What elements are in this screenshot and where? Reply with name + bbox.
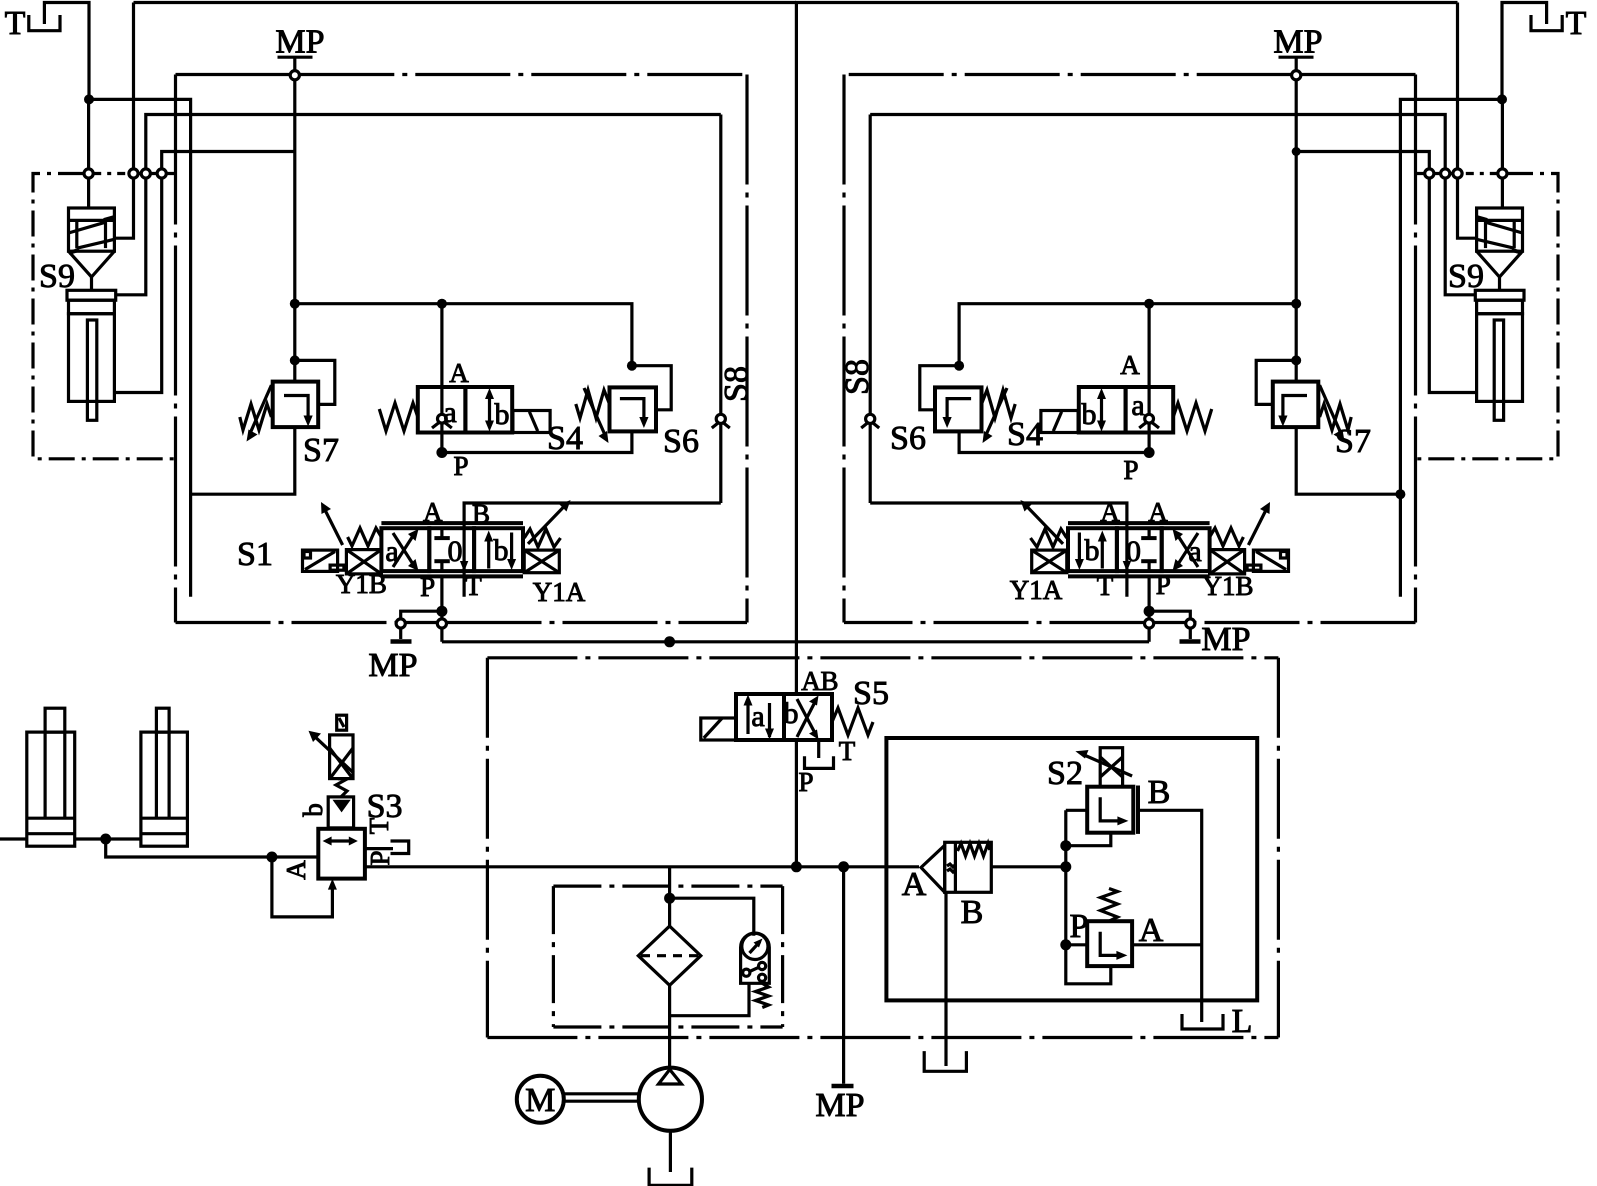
svg-text:MP: MP [1273, 24, 1322, 61]
pressure switch [741, 933, 770, 983]
wire: valve A ports [1066, 943, 1087, 946]
svg-text:S7: S7 [1335, 423, 1371, 460]
svg-text:T: T [839, 736, 856, 766]
valve S3 body [318, 829, 365, 879]
S1 left solenoid [346, 550, 381, 574]
svg-text:T: T [1097, 571, 1114, 601]
S3 manual override cap [337, 715, 347, 730]
svg-text:S8: S8 [839, 359, 876, 395]
wire: top bus line (left section) [134, 1, 797, 4]
svg-text:S4: S4 [547, 420, 583, 457]
svg-text:A: A [423, 497, 443, 527]
node: junction T-line [84, 94, 94, 104]
svg-text:0: 0 [1126, 535, 1141, 568]
valve S9 funnel (poppet) [69, 251, 115, 277]
wire: S7 bypass loop [295, 360, 335, 404]
S5 spring [832, 708, 873, 735]
svg-text:P: P [798, 767, 813, 797]
wire: riser from top bus to junction row [132, 3, 135, 170]
svg-text:B: B [961, 894, 984, 931]
valve S9 pilot body [69, 208, 115, 251]
S1 centre box tank symbols [440, 528, 443, 536]
svg-text:S6: S6 [663, 423, 699, 460]
svg-text:T: T [5, 5, 26, 42]
S5 tank port T [817, 740, 820, 758]
gauge port MP (bottom centre) [842, 867, 845, 1084]
S1 right spring [524, 529, 560, 547]
svg-text:B: B [472, 499, 490, 529]
node: right S7 drain junction [1395, 489, 1405, 499]
wire: S3 outlet [365, 865, 919, 868]
svg-text:Y1B: Y1B [336, 569, 387, 599]
svg-text:Y1A: Y1A [1010, 575, 1063, 605]
tank T (top left) [29, 15, 60, 31]
svg-text:P: P [1123, 455, 1138, 485]
filter [638, 926, 701, 985]
filter sub-block (chain) [553, 884, 782, 887]
wire: S7 drain to T line [191, 427, 295, 494]
wire: S4 to P node [440, 423, 443, 452]
svg-text:MP: MP [368, 647, 417, 684]
svg-text:MP: MP [275, 24, 324, 61]
relief valve S6 [610, 387, 657, 431]
svg-text:S2: S2 [1047, 755, 1083, 792]
wire: S8 to S1 B port [464, 503, 721, 597]
svg-text:b: b [1082, 398, 1097, 431]
right half (mirrored copy of left half geometry) [795, 3, 1562, 642]
svg-text:a: a [1188, 535, 1201, 568]
wire: S7 riser [293, 304, 296, 382]
svg-text:b: b [1085, 534, 1100, 567]
svg-text:A: A [902, 866, 927, 903]
svg-text:A: A [801, 666, 821, 696]
wire: S5 P port to supply line [795, 740, 798, 867]
S3 drain with tank [365, 847, 393, 850]
wire: inner block top edge [146, 115, 721, 170]
svg-text:S9: S9 [1448, 258, 1484, 295]
S5 solenoid [701, 718, 736, 740]
svg-text:P: P [1156, 570, 1171, 600]
wire: pressure bus [295, 304, 632, 366]
check valve A-B [921, 845, 945, 892]
svg-text:P: P [420, 572, 435, 602]
cylinder (bottom left outer) [45, 708, 65, 732]
svg-text:b: b [495, 398, 510, 431]
wire: check valve outlet [991, 865, 1066, 868]
svg-text:A: A [449, 358, 469, 388]
wire: MP riser down to pressure bus [293, 80, 296, 304]
wire: T return to inner block left edge [89, 99, 191, 596]
motor M [517, 1076, 564, 1123]
svg-text:A: A [281, 860, 311, 880]
svg-text:b: b [784, 697, 799, 730]
wire: cylinders to valve S3 [106, 839, 319, 857]
S1 left adjust arrow [325, 510, 343, 545]
drain tank L [1182, 1014, 1223, 1029]
svg-text:L: L [1232, 1003, 1253, 1040]
S1 box a crossed arrows [393, 534, 415, 568]
block boundary: outer valve block (chain) [174, 75, 177, 623]
LEFTHALF [29, 3, 796, 642]
S9 enclosure (chain line box) [33, 174, 176, 459]
node P [436, 447, 447, 458]
wire: pump pressure line P [442, 640, 1149, 643]
S1 right adjust arrow [528, 505, 566, 544]
svg-text:S4: S4 [1007, 416, 1043, 453]
svg-text:Y1B: Y1B [1202, 571, 1253, 601]
S1 box b arrows [487, 536, 490, 569]
directional valve S1 [381, 521, 523, 525]
svg-text:a: a [1131, 389, 1144, 422]
svg-text:a: a [443, 396, 456, 429]
S2 outlet B [1136, 786, 1140, 834]
block boundary: power unit block (chain) [487, 656, 1278, 659]
wire: C2 drop to S9 cylinder top [116, 178, 146, 295]
svg-text:S5: S5 [853, 675, 889, 712]
wire: S2 gallery riser [1064, 810, 1067, 945]
svg-text:A: A [1120, 350, 1140, 380]
wire: C3 drop to S9 cylinder bottom [114, 178, 161, 393]
relief valve A [1087, 921, 1132, 966]
svg-text:S8: S8 [718, 366, 755, 402]
svg-text:P: P [365, 850, 395, 865]
wire: cylinder feed line [0, 837, 27, 840]
wire: S1 P drop to MP node [440, 576, 443, 619]
svg-text:A: A [1148, 497, 1168, 527]
svg-text:B: B [820, 666, 838, 696]
svg-text:A: A [1100, 497, 1120, 527]
S2 manifold block [886, 738, 1257, 1000]
directional valve S4 [418, 387, 466, 433]
check valve S8 [719, 115, 722, 414]
shaft motor-pump [564, 1092, 639, 1095]
wire: suction line into filter [668, 867, 671, 926]
valve A spring [1101, 889, 1118, 922]
svg-text:P: P [1070, 908, 1089, 945]
check symbol in S4 box a [438, 414, 447, 423]
svg-text:S9: S9 [39, 258, 75, 295]
svg-text:b: b [494, 534, 509, 567]
S1 left pilot [303, 550, 338, 571]
S3 pilot section with poppet [328, 797, 353, 828]
svg-text:MP: MP [815, 1087, 864, 1124]
arrows in S4 box b [488, 394, 491, 426]
wire: S1 P to pump supply line [440, 628, 443, 642]
S2 pilot head [1100, 748, 1122, 787]
cylinder (bottom left inner) [156, 708, 169, 732]
solenoid S4 [513, 411, 550, 433]
svg-text:T: T [1566, 5, 1587, 42]
svg-text:a: a [751, 700, 764, 733]
wire: branch to pressure switch [670, 898, 754, 936]
wire: S6 bypass loop [632, 366, 671, 410]
pump suction tank [669, 1131, 672, 1172]
pump [639, 1068, 702, 1131]
S3 adjust arrow [315, 737, 354, 773]
svg-text:Y1A: Y1A [533, 577, 586, 607]
gauge port MP (bottom of block) [396, 619, 405, 628]
wire: S3 pilot loop [272, 857, 333, 917]
svg-text:A: A [1139, 912, 1164, 949]
wire: check valve drain to tank [944, 892, 947, 1066]
directional valve S5 [736, 694, 784, 740]
node: right pilot junction [1292, 147, 1301, 156]
svg-text:T: T [465, 571, 482, 601]
svg-text:MP: MP [1201, 621, 1250, 658]
svg-text:B: B [1148, 774, 1171, 811]
wire: C1 drop to S9 spring box [114, 178, 133, 238]
svg-text:0: 0 [448, 535, 463, 568]
wire: P branch to S6 [442, 431, 632, 452]
relief valve S7 [273, 382, 319, 428]
S1 right solenoid [524, 550, 559, 573]
gauge port MP (top) [293, 58, 296, 71]
relief valve S2 [1066, 809, 1087, 812]
S1 left spring [348, 528, 382, 546]
svg-text:T: T [364, 817, 394, 834]
pressure switch spring and drain [756, 983, 769, 1007]
wire: A port into S4 [440, 304, 443, 415]
wire: S9 valve feed [87, 104, 90, 169]
spring S6 [576, 390, 610, 418]
svg-text:S7: S7 [303, 432, 339, 469]
svg-text:P: P [453, 451, 468, 481]
wire: pipe into tank T [44, 3, 89, 100]
wire: pilot line to MP riser [162, 152, 295, 170]
svg-text:S1: S1 [237, 536, 273, 573]
svg-text:S6: S6 [890, 420, 926, 457]
S5 box a arrows [746, 700, 749, 734]
svg-text:a: a [385, 535, 398, 568]
spring S4 [379, 403, 418, 431]
svg-text:M: M [525, 1082, 555, 1119]
wire: centre pilot line from top bus to valve S5 [795, 3, 798, 695]
S3 solenoid [330, 735, 353, 779]
S3 spring [336, 779, 347, 797]
node: gland circle row [84, 169, 93, 178]
svg-text:b: b [298, 803, 328, 817]
cylinder S9 [67, 290, 116, 300]
S5 box b crossed arrows [797, 700, 816, 737]
wire: filter to pump [668, 985, 671, 1068]
